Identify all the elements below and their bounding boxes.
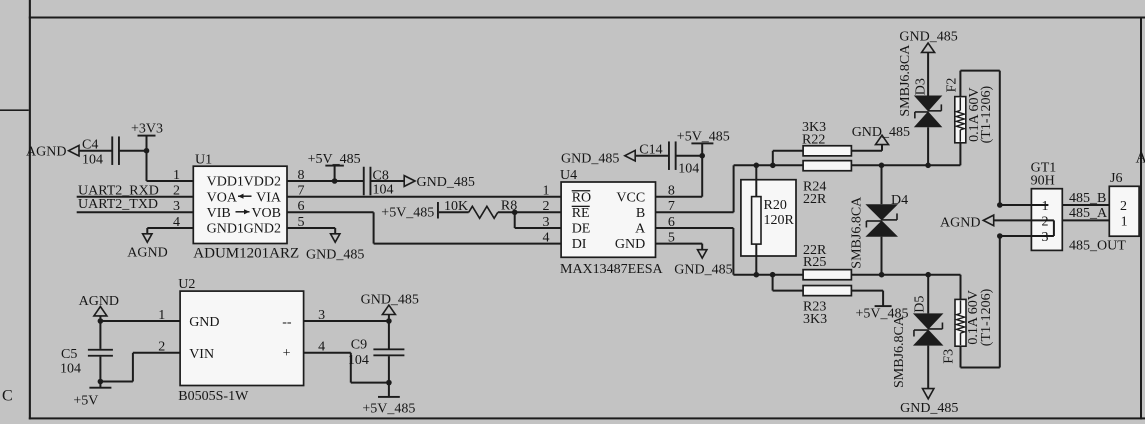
svg-text:104: 104 [373,183,394,198]
svg-text:B: B [636,206,645,221]
svg-text:GND_485: GND_485 [361,293,419,308]
svg-text:C5: C5 [61,347,77,362]
svg-text:4: 4 [543,230,550,245]
svg-text:J6: J6 [1110,171,1122,186]
svg-text:GND2: GND2 [244,222,281,237]
svg-text:1: 1 [173,168,180,183]
svg-text:+: + [283,346,291,361]
svg-text:U2: U2 [178,277,195,292]
svg-text:1: 1 [543,184,550,199]
svg-text:104: 104 [678,161,699,176]
svg-text:2: 2 [158,340,165,355]
svg-text:AGND: AGND [26,145,66,160]
svg-text:--: -- [282,315,292,330]
svg-text:VCC: VCC [616,190,645,205]
svg-text:1: 1 [158,308,165,323]
svg-text:VIB: VIB [207,206,231,221]
svg-text:2: 2 [1120,199,1127,214]
svg-text:AGND: AGND [127,246,167,261]
svg-text:GND_485: GND_485 [561,151,619,166]
svg-text:6: 6 [298,199,305,214]
svg-text:4: 4 [318,340,325,355]
svg-text:GND_485: GND_485 [306,248,364,263]
svg-text:VDD1: VDD1 [207,175,244,190]
svg-text:D5: D5 [913,296,928,313]
svg-text:ADUM1201ARZ: ADUM1201ARZ [193,245,299,261]
svg-text:R25: R25 [803,255,826,270]
svg-text:GND: GND [189,315,219,330]
svg-text:5: 5 [298,215,305,230]
svg-text:U1: U1 [195,153,212,168]
svg-text:AGND: AGND [79,294,119,309]
svg-text:GND_485: GND_485 [852,125,910,140]
svg-text:2: 2 [173,184,180,199]
svg-text:+5V_485: +5V_485 [677,129,730,144]
svg-text:3: 3 [1042,230,1049,245]
svg-text:GND_485: GND_485 [417,175,475,190]
svg-text:3K3: 3K3 [803,312,827,327]
svg-text:120R: 120R [764,213,795,228]
svg-text:F2: F2 [944,78,959,93]
svg-text:C9: C9 [351,337,367,352]
svg-text:C14: C14 [639,142,662,157]
svg-text:485_A: 485_A [1069,206,1108,221]
svg-text:2: 2 [1042,214,1049,229]
svg-text:104: 104 [348,353,369,368]
svg-text:485_B: 485_B [1069,191,1106,206]
svg-text:R20: R20 [764,198,787,213]
svg-text:GND_485: GND_485 [674,263,732,278]
svg-text:3: 3 [173,199,180,214]
svg-text:R22: R22 [802,132,825,147]
svg-text:B0505S-1W: B0505S-1W [178,389,249,404]
svg-text:C: C [2,388,13,405]
svg-text:RO: RO [572,190,591,205]
svg-text:U4: U4 [560,168,577,183]
svg-text:D3: D3 [913,78,928,95]
svg-text:D4: D4 [891,193,908,208]
svg-text:VIA: VIA [256,190,282,205]
svg-text:DE: DE [572,222,591,237]
svg-text:GND1: GND1 [207,222,244,237]
svg-text:+3V3: +3V3 [131,122,163,137]
svg-text:RE: RE [572,206,590,221]
svg-text:VOA: VOA [207,190,238,205]
svg-text:90H: 90H [1031,174,1055,189]
svg-text:+5V_485: +5V_485 [362,402,415,417]
svg-text:GND: GND [615,237,645,252]
svg-text:C4: C4 [82,138,98,153]
svg-text:1: 1 [1121,214,1128,229]
svg-text:22R: 22R [803,192,827,207]
svg-text:(T1-1206): (T1-1206) [979,86,994,144]
svg-text:SMBJ6.8CA: SMBJ6.8CA [898,44,913,117]
svg-text:7: 7 [298,184,305,199]
svg-text:1: 1 [1042,199,1049,214]
svg-text:SMBJ6.8CA: SMBJ6.8CA [849,196,864,269]
svg-text:+5V_485: +5V_485 [381,205,434,220]
svg-text:+5V: +5V [73,394,98,409]
svg-text:SMBJ6.8CA: SMBJ6.8CA [892,315,907,388]
svg-text:485_OUT: 485_OUT [1069,239,1126,254]
svg-text:3: 3 [318,308,325,323]
svg-text:VIN: VIN [189,347,214,362]
svg-text:F3: F3 [941,349,956,364]
svg-text:(T1-1206): (T1-1206) [979,288,994,346]
svg-text:VDD2: VDD2 [244,175,281,190]
svg-text:+5V_485: +5V_485 [308,152,361,167]
svg-text:A: A [1136,149,1145,166]
svg-text:UART2_TXD: UART2_TXD [78,197,158,212]
svg-text:AGND: AGND [940,216,980,231]
svg-text:2: 2 [543,199,550,214]
svg-text:DI: DI [572,237,587,252]
svg-text:8: 8 [298,168,305,183]
svg-text:MAX13487EESA: MAX13487EESA [560,262,664,277]
svg-text:GND_485: GND_485 [900,401,958,416]
svg-text:104: 104 [60,362,81,377]
svg-text:104: 104 [82,153,103,168]
svg-text:VOB: VOB [251,206,281,221]
svg-text:A: A [635,222,646,237]
svg-text:10K: 10K [444,199,468,214]
svg-text:4: 4 [173,215,180,230]
svg-text:3: 3 [543,215,550,230]
